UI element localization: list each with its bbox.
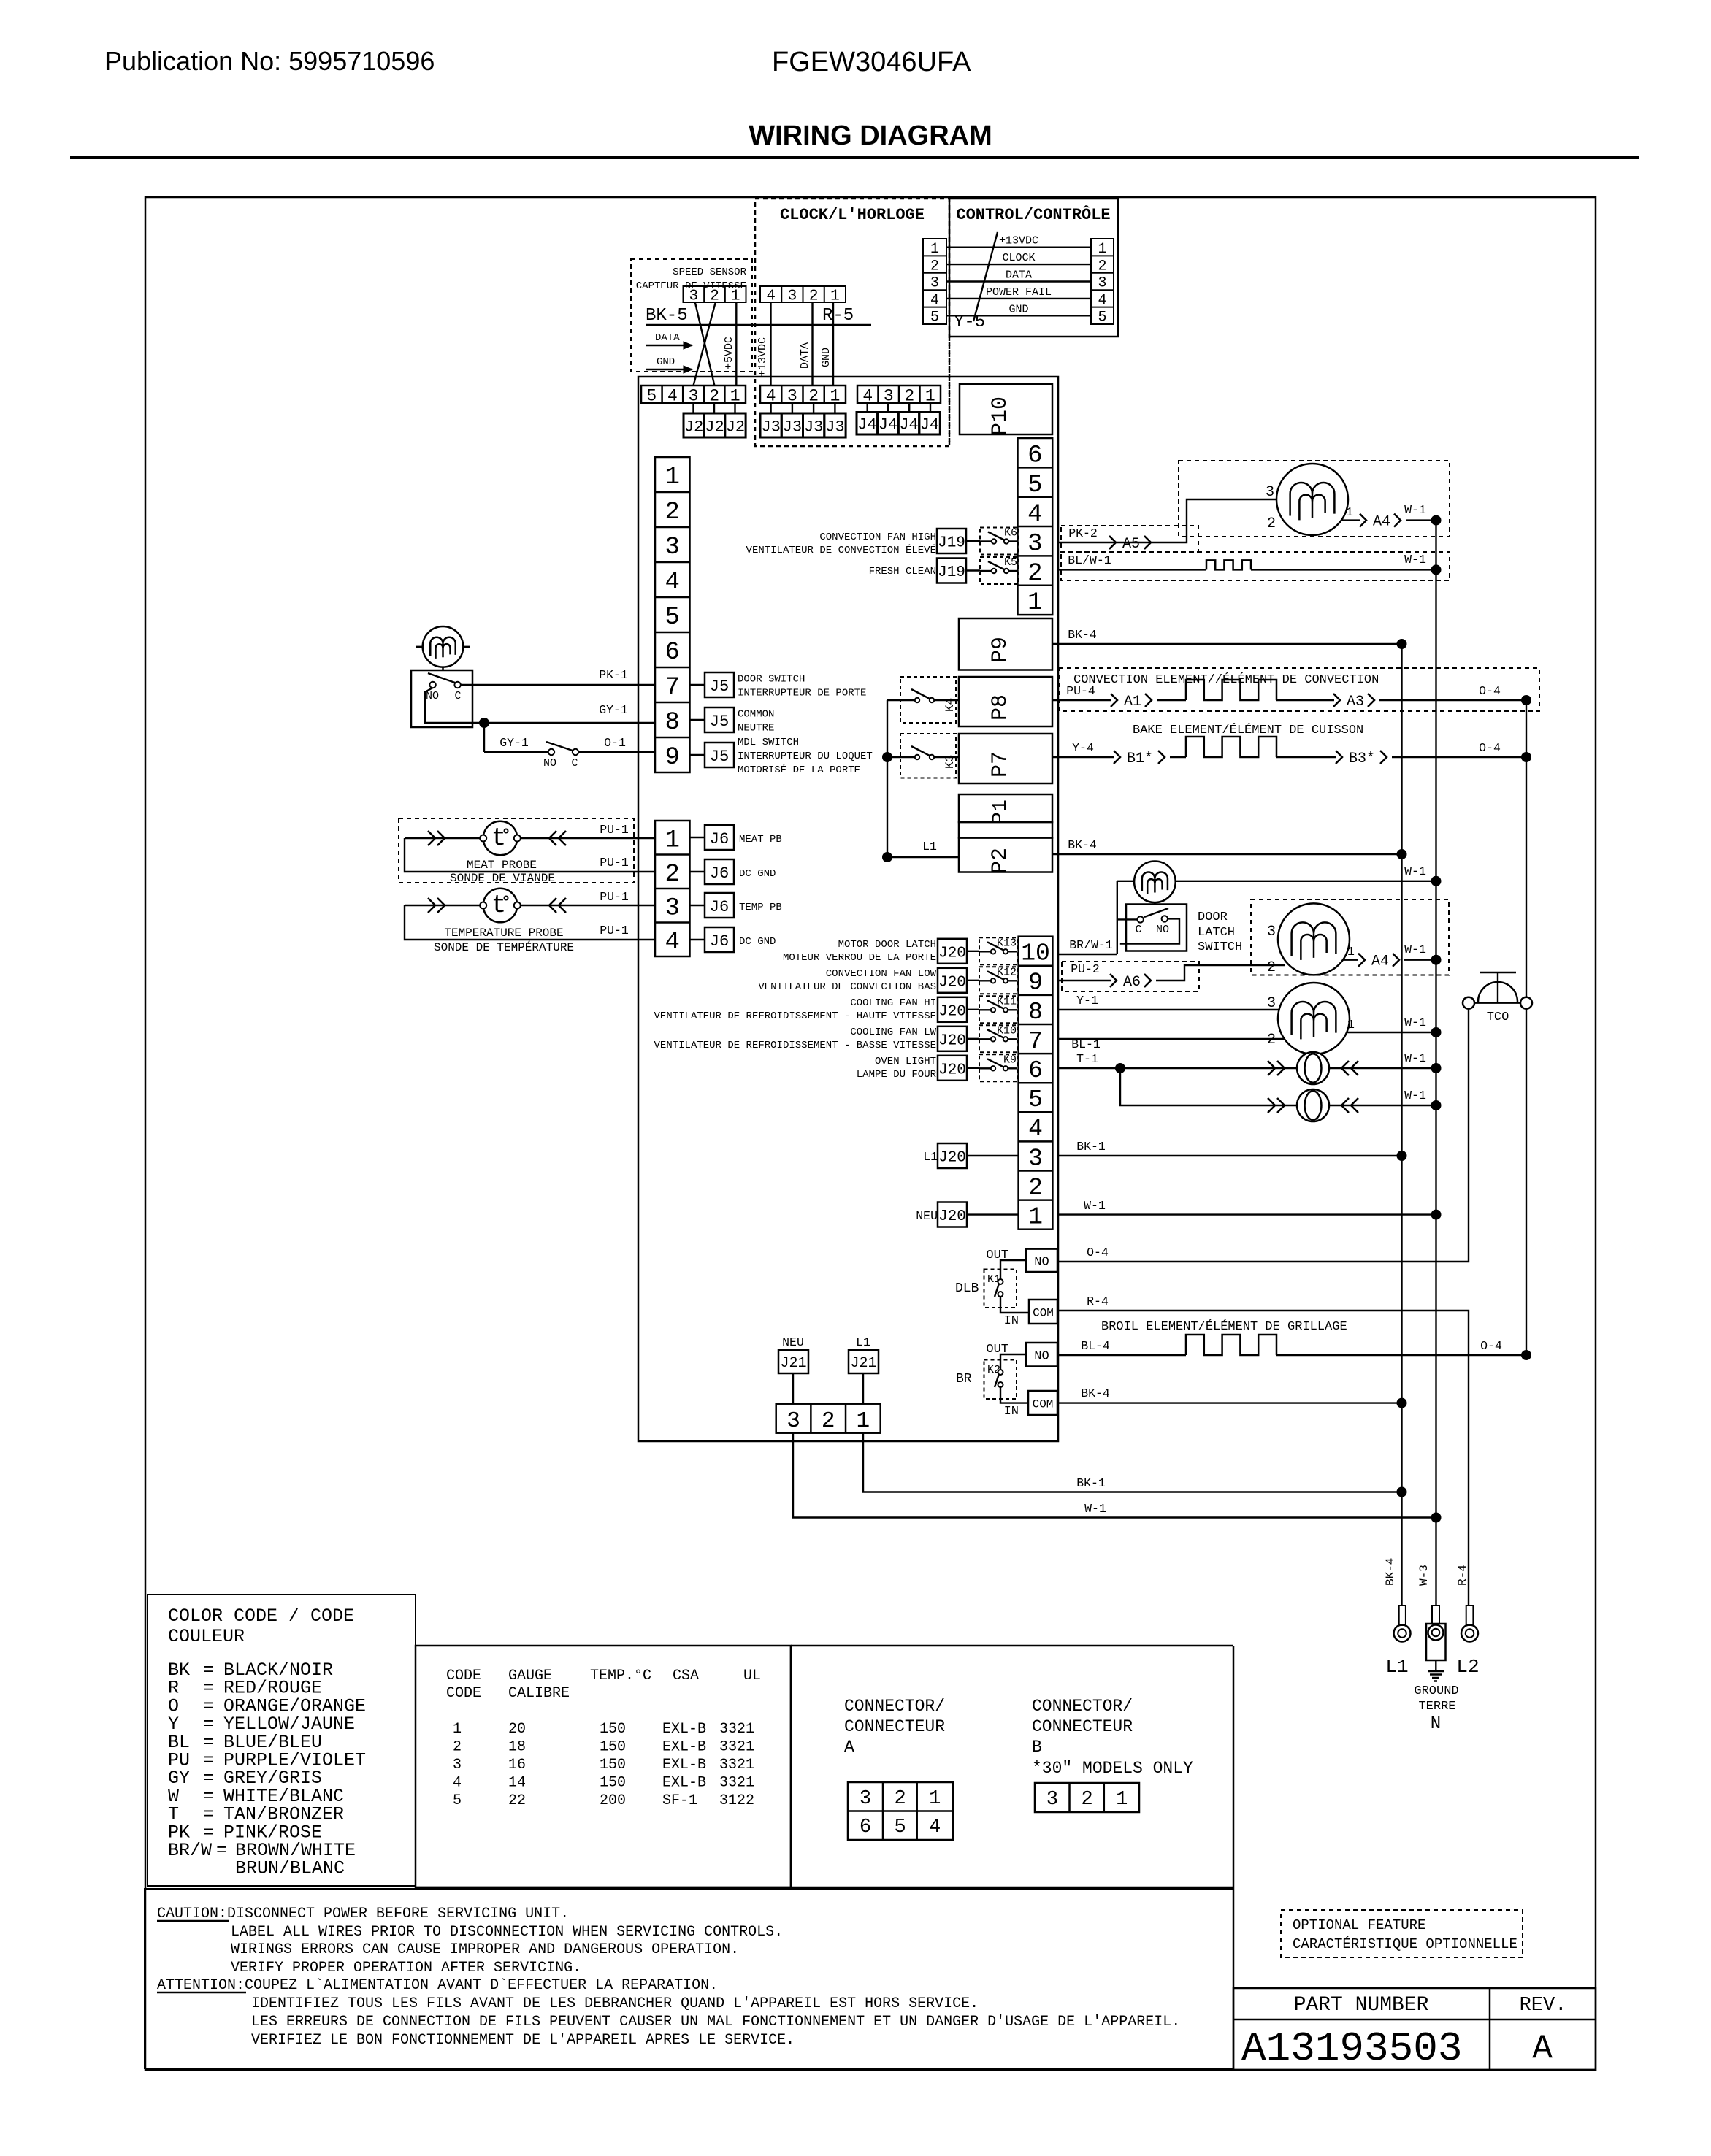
door latch switch internal wiring — [1117, 918, 1138, 920]
connector J6 at row y=1240 — [690, 905, 705, 906]
svg-text:9: 9 — [665, 744, 680, 772]
color code box — [148, 1595, 416, 1886]
svg-text:R-4: R-4 — [1087, 1294, 1109, 1308]
svg-text:W-1: W-1 — [1404, 1051, 1426, 1065]
svg-text:LABEL ALL WIRES PRIOR TO DISCO: LABEL ALL WIRES PRIOR TO DISCONNECTION W… — [231, 1924, 783, 1941]
svg-text:*30" MODELS ONLY: *30" MODELS ONLY — [1032, 1759, 1193, 1778]
svg-text:2: 2 — [1028, 1174, 1043, 1201]
door latch switch box — [1126, 905, 1187, 951]
clock wire DATA — [811, 302, 813, 385]
connector J6 at row y=1287 — [690, 939, 705, 940]
temperature probe symbol — [483, 889, 518, 923]
connector J4 plug boxes — [857, 413, 878, 435]
connector J5 at row y=938 — [690, 684, 705, 686]
svg-text:EXL-B: EXL-B — [662, 1757, 706, 1773]
control connector right pin column 1-5 — [1091, 239, 1114, 324]
svg-text:VENTILATEUR DE CONVECTION BAS: VENTILATEUR DE CONVECTION BAS — [758, 981, 936, 993]
title underline — [70, 156, 1639, 159]
svg-text:PU-2: PU-2 — [1071, 962, 1100, 976]
clock connector pin row 4 3 2 1 — [760, 286, 846, 302]
MDL switch contacts — [548, 749, 554, 755]
svg-text:1: 1 — [730, 386, 740, 405]
svg-text:K9: K9 — [1003, 1054, 1017, 1066]
svg-text:J21: J21 — [850, 1355, 876, 1372]
svg-text:+13VDC: +13VDC — [999, 235, 1038, 248]
svg-text:J20: J20 — [938, 945, 966, 962]
svg-text:A4: A4 — [1373, 514, 1390, 531]
junction dot W bus lamp1 — [1431, 1063, 1442, 1073]
svg-text:K10: K10 — [997, 1024, 1017, 1037]
svg-text:COOLING FAN HI: COOLING FAN HI — [850, 997, 936, 1009]
svg-text:20: 20 — [508, 1721, 526, 1738]
svg-text:VERIFY PROPER OPERATION AFTER: VERIFY PROPER OPERATION AFTER SERVICING. — [231, 1960, 581, 1976]
connector J5 at row y=986 — [690, 719, 705, 721]
svg-text:2: 2 — [1027, 560, 1042, 588]
oven light lamp 2 — [1267, 1105, 1297, 1106]
svg-text:CARACTÉRISTIQUE OPTIONNELLE: CARACTÉRISTIQUE OPTIONNELLE — [1293, 1936, 1517, 1952]
speed sensor pin row 3 2 1 — [684, 286, 746, 302]
svg-text:NO: NO — [426, 690, 439, 702]
control wire POWER FAIL — [946, 298, 1091, 299]
wire W-1 from bottom connector pin3 — [793, 1433, 1436, 1518]
svg-text:SONDE DE VIANDE: SONDE DE VIANDE — [450, 872, 555, 885]
svg-text:BK-1: BK-1 — [1076, 1476, 1106, 1490]
svg-text:CODE: CODE — [446, 1668, 481, 1684]
svg-text:J20: J20 — [938, 1032, 966, 1049]
junction dot W bus fan3 — [1431, 1027, 1442, 1037]
svg-text:1: 1 — [453, 1721, 462, 1738]
svg-text:PU-1: PU-1 — [600, 856, 629, 870]
svg-text:O-4: O-4 — [1479, 741, 1501, 755]
convection fan low motor M2 — [1278, 903, 1350, 975]
svg-text:7: 7 — [1028, 1028, 1043, 1055]
wire Y-1 cooling fan hi — [1057, 1009, 1279, 1010]
J3 stubs — [770, 403, 771, 413]
connector P10 — [960, 384, 1052, 434]
connector P9 — [959, 618, 1052, 670]
connector J19 (fresh clean) — [937, 559, 966, 583]
clock wire +13VDC — [770, 302, 771, 385]
svg-text:3: 3 — [786, 1408, 800, 1434]
svg-text:BK-1: BK-1 — [1076, 1140, 1106, 1154]
convection fan high motor dashed box — [1179, 461, 1450, 537]
control wire CLOCK — [946, 264, 1091, 265]
svg-text:CSA: CSA — [673, 1668, 699, 1684]
svg-text:2: 2 — [1081, 1789, 1092, 1811]
svg-text:1: 1 — [1346, 505, 1353, 519]
svg-text:3: 3 — [1098, 275, 1106, 292]
svg-text:3: 3 — [453, 1757, 462, 1773]
terminal L1 ring — [1399, 1606, 1406, 1625]
svg-text:200: 200 — [600, 1792, 626, 1809]
svg-text:+5VDC: +5VDC — [723, 337, 735, 369]
svg-text:UL: UL — [743, 1668, 761, 1684]
wire GY-1 (common to pin 8) — [484, 722, 655, 724]
terminal L2 ring — [1466, 1606, 1474, 1625]
svg-text:CONNECTEUR: CONNECTEUR — [1032, 1717, 1133, 1736]
svg-text:PU-4: PU-4 — [1066, 684, 1095, 698]
wire O-4 from DLB NO to TCO — [1057, 1010, 1469, 1262]
svg-text:3: 3 — [1046, 1789, 1058, 1811]
svg-text:J20: J20 — [938, 1208, 966, 1225]
svg-text:O-1: O-1 — [604, 736, 626, 750]
relay K12 — [979, 967, 1017, 994]
svg-text:TEMP.°C: TEMP.°C — [590, 1668, 651, 1684]
svg-text:4: 4 — [766, 386, 776, 405]
svg-text:GND: GND — [657, 356, 675, 368]
svg-text:5: 5 — [665, 604, 680, 632]
svg-text:BR/W-1: BR/W-1 — [1069, 938, 1113, 952]
svg-text:2: 2 — [809, 288, 819, 305]
wire W-1 door latch motor to W bus — [1176, 881, 1436, 882]
sensor crossover wires to J2 — [695, 302, 715, 385]
svg-text:OPTIONAL FEATURE: OPTIONAL FEATURE — [1293, 1917, 1425, 1933]
svg-text:IDENTIFIEZ TOUS LES FILS AVANT: IDENTIFIEZ TOUS LES FILS AVANT DE LES DE… — [251, 1995, 979, 2012]
svg-text:FGEW3046UFA: FGEW3046UFA — [772, 47, 971, 77]
svg-text:150: 150 — [600, 1721, 626, 1738]
junction dot O bus broil — [1521, 1350, 1531, 1360]
svg-text:2: 2 — [665, 499, 680, 526]
connector J6 at row y=1194 — [690, 871, 705, 872]
svg-text:3321: 3321 — [719, 1775, 754, 1792]
junction dot T-1 — [1115, 1063, 1125, 1073]
connector J6 at row y=1147 — [690, 837, 705, 838]
svg-text:1: 1 — [930, 241, 939, 258]
connector J19 (convection fan high) — [937, 529, 966, 553]
svg-text:9: 9 — [1028, 970, 1043, 997]
svg-text:2: 2 — [453, 1739, 462, 1756]
svg-text:SPEED SENSOR: SPEED SENSOR — [673, 266, 746, 278]
svg-text:3: 3 — [788, 288, 797, 305]
svg-text:5: 5 — [1098, 310, 1106, 326]
svg-text:5: 5 — [1028, 1086, 1043, 1113]
svg-text:7: 7 — [665, 674, 680, 702]
svg-text:NO: NO — [1034, 1349, 1049, 1363]
connector J5 at row y=1034 — [690, 754, 705, 756]
svg-text:SWITCH: SWITCH — [1198, 940, 1242, 954]
relay K10 — [979, 1025, 1017, 1052]
svg-text:3: 3 — [930, 275, 939, 292]
sensor +5V wire to J2 pin1 — [735, 302, 737, 385]
svg-text:150: 150 — [600, 1739, 626, 1756]
svg-text:CONNECTEUR: CONNECTEUR — [844, 1717, 945, 1736]
svg-text:EXL-B: EXL-B — [662, 1775, 706, 1792]
svg-text:R-5: R-5 — [822, 306, 854, 326]
junction dot O bus bake — [1521, 752, 1531, 762]
svg-text:L1: L1 — [856, 1335, 870, 1349]
svg-text:1: 1 — [665, 464, 680, 491]
left connector column pins 1-4 (J6) — [655, 821, 690, 956]
svg-text:CONVECTION FAN LOW: CONVECTION FAN LOW — [826, 968, 937, 980]
dashed box BL/W-1 fresh clean — [1061, 552, 1450, 580]
terminal ground — [1432, 1606, 1439, 1624]
wire R-4 from DLB COM — [1057, 1311, 1469, 1606]
tables region divider — [790, 1646, 792, 1887]
relay K2 COM box — [1028, 1391, 1057, 1415]
wire BL-1 cooling fan lw — [1057, 1038, 1284, 1040]
svg-text:P2: P2 — [988, 848, 1013, 874]
svg-text:3: 3 — [1267, 924, 1276, 940]
svg-text:1: 1 — [929, 1788, 941, 1810]
svg-text:NO: NO — [1034, 1255, 1049, 1269]
svg-text:W-1: W-1 — [1404, 553, 1426, 567]
connector P7 — [959, 734, 1052, 783]
connector J20 at K10 — [938, 1027, 967, 1051]
wire BK-4 from P2 — [1052, 853, 1402, 855]
svg-text:VERIFIEZ LE BON FONCTIONNEMENT: VERIFIEZ LE BON FONCTIONNEMENT DE L'APPA… — [251, 2032, 795, 2049]
svg-text:J6: J6 — [710, 864, 729, 883]
svg-text:14: 14 — [508, 1775, 526, 1792]
svg-text:J2: J2 — [684, 418, 703, 436]
wire PU-1 meat probe row 1 — [405, 837, 655, 839]
svg-text:BK-4: BK-4 — [1081, 1386, 1110, 1400]
svg-text:5: 5 — [930, 310, 939, 326]
svg-text:22: 22 — [508, 1792, 526, 1809]
optional feature dashed box — [1281, 1910, 1523, 1957]
wire O-1 (MDL switch to pin 9) — [578, 751, 655, 753]
svg-text:J2: J2 — [705, 418, 724, 436]
svg-text:2: 2 — [904, 386, 914, 405]
svg-text:J4: J4 — [879, 416, 897, 434]
svg-text:INTERRUPTEUR DU LOQUET: INTERRUPTEUR DU LOQUET — [738, 751, 873, 762]
relay K4 dashed box — [900, 677, 956, 723]
svg-text:K6: K6 — [1004, 527, 1017, 540]
junction dot O bus convection — [1521, 695, 1531, 705]
svg-text:BL/W-1: BL/W-1 — [1068, 553, 1111, 567]
svg-text:COOLING FAN LW: COOLING FAN LW — [850, 1027, 936, 1038]
svg-text:COLOR CODE / CODE: COLOR CODE / CODE — [168, 1606, 354, 1627]
svg-text:1: 1 — [1116, 1789, 1128, 1811]
svg-text:3: 3 — [689, 288, 699, 305]
wire A4 from fan M1 pin 1 — [1341, 519, 1360, 521]
svg-text:=: = — [216, 1840, 227, 1861]
svg-text:J4: J4 — [899, 416, 918, 434]
speed sensor dashed box — [631, 259, 752, 372]
svg-text:GND: GND — [820, 348, 832, 367]
svg-text:6: 6 — [1028, 1057, 1043, 1084]
svg-text:3: 3 — [884, 386, 894, 405]
svg-text:Y-5: Y-5 — [954, 312, 985, 332]
svg-text:5: 5 — [1027, 472, 1042, 499]
svg-text:2: 2 — [709, 386, 719, 405]
door motor — [423, 626, 464, 667]
svg-text:3: 3 — [1028, 1145, 1043, 1172]
svg-text:3: 3 — [665, 534, 680, 561]
svg-text:W-1: W-1 — [1404, 864, 1426, 878]
svg-text:VENTILATEUR DE CONVECTION ÉLEV: VENTILATEUR DE CONVECTION ÉLEVÉ — [746, 543, 936, 556]
svg-text:3122: 3122 — [719, 1792, 754, 1809]
connector J2 header row 5 4 3 2 1 — [641, 385, 746, 403]
svg-text:O-4: O-4 — [1480, 1339, 1502, 1353]
svg-text:3: 3 — [665, 894, 680, 922]
svg-text:O-4: O-4 — [1479, 684, 1501, 698]
svg-text:2: 2 — [930, 258, 939, 275]
svg-text:J6: J6 — [710, 932, 729, 951]
relay K1 dashed box — [984, 1270, 1017, 1308]
svg-text:J3: J3 — [783, 418, 802, 436]
wire A4 from fan M2 pin 1 — [1343, 959, 1358, 960]
svg-text:COM: COM — [1033, 1306, 1054, 1319]
svg-text:COM: COM — [1033, 1397, 1054, 1411]
meat probe dashed box — [399, 818, 634, 883]
svg-text:DC GND: DC GND — [739, 936, 776, 948]
svg-text:8: 8 — [1028, 999, 1043, 1026]
svg-text:1: 1 — [1347, 945, 1355, 959]
convection fan low motor dashed box — [1251, 899, 1449, 975]
svg-text:P9: P9 — [988, 637, 1013, 663]
svg-text:4: 4 — [929, 1817, 941, 1838]
svg-text:BK-4: BK-4 — [1068, 838, 1097, 852]
relay K1 COM box — [1029, 1300, 1057, 1324]
svg-text:GND: GND — [1008, 303, 1028, 315]
svg-text:4: 4 — [1098, 292, 1106, 309]
svg-text:1: 1 — [1028, 1204, 1043, 1231]
connector P1 — [959, 794, 1052, 822]
svg-text:MOTEUR VERROU DE LA PORTE: MOTEUR VERROU DE LA PORTE — [783, 952, 936, 964]
svg-text:MEAT PB: MEAT PB — [739, 834, 782, 845]
svg-text:6: 6 — [860, 1817, 871, 1838]
TCO thermal cutoff — [1463, 997, 1474, 1009]
svg-text:2: 2 — [808, 386, 819, 405]
wire to oven light lamp 2 — [1120, 1068, 1267, 1105]
svg-text:TEMPERATURE PROBE: TEMPERATURE PROBE — [444, 927, 563, 940]
control connector left pin column 1-5 — [923, 239, 946, 324]
svg-text:NEU: NEU — [916, 1209, 938, 1223]
svg-text:10: 10 — [1021, 940, 1050, 967]
svg-text:IN: IN — [1004, 1314, 1019, 1328]
svg-text:2: 2 — [1098, 258, 1106, 275]
svg-text:2: 2 — [665, 861, 680, 889]
wire L1 to P2 — [887, 856, 959, 858]
svg-text:GY-1: GY-1 — [499, 736, 529, 750]
svg-text:BK-4: BK-4 — [1068, 628, 1097, 642]
junction dot BK bus bottom — [1397, 1487, 1407, 1497]
svg-text:DATA: DATA — [799, 342, 811, 369]
control wire +13VDC — [946, 247, 1091, 248]
svg-text:A13193503: A13193503 — [1241, 2025, 1462, 2072]
svg-text:PK-2: PK-2 — [1068, 526, 1098, 540]
relay K9 — [979, 1054, 1017, 1081]
svg-text:LES ERREURS DE CONNECTION DE F: LES ERREURS DE CONNECTION DE FILS PEUVEN… — [251, 2014, 1180, 2030]
svg-text:2: 2 — [1267, 515, 1276, 532]
svg-text:R-4: R-4 — [1456, 1565, 1469, 1586]
svg-text:L1: L1 — [1385, 1656, 1408, 1678]
svg-text:3: 3 — [1027, 530, 1042, 558]
svg-text:3321: 3321 — [719, 1757, 754, 1773]
svg-text:J20: J20 — [938, 1003, 966, 1020]
svg-text:DOOR SWITCH: DOOR SWITCH — [738, 674, 805, 686]
svg-text:5: 5 — [894, 1817, 906, 1838]
svg-text:BL-4: BL-4 — [1081, 1339, 1110, 1353]
convection fan motor M1 — [1276, 464, 1348, 535]
svg-text:DLB: DLB — [955, 1281, 979, 1296]
wire W-1 from pin 1 — [1057, 1213, 1436, 1215]
svg-text:P7: P7 — [988, 751, 1013, 778]
svg-text:PART NUMBER: PART NUMBER — [1294, 1994, 1429, 2017]
svg-text:2: 2 — [822, 1408, 835, 1434]
relay K5 — [980, 557, 1018, 584]
connector J20 at K9 — [938, 1056, 967, 1081]
oven light lamp 1 — [1267, 1067, 1297, 1069]
svg-text:W-1: W-1 — [1404, 1089, 1426, 1102]
svg-text:L1: L1 — [923, 1150, 938, 1164]
part number block — [1233, 1646, 1235, 2070]
svg-text:BAKE ELEMENT/ÉLÉMENT DE CUISSO: BAKE ELEMENT/ÉLÉMENT DE CUISSON — [1133, 723, 1363, 737]
svg-text:3321: 3321 — [719, 1721, 754, 1738]
svg-text:DATA: DATA — [1006, 269, 1032, 282]
svg-text:K11: K11 — [997, 995, 1017, 1008]
svg-text:3321: 3321 — [719, 1739, 754, 1756]
svg-text:BR: BR — [956, 1372, 972, 1386]
wire gauge table — [416, 1646, 791, 1887]
svg-text:5: 5 — [453, 1792, 462, 1809]
relay K6 — [980, 528, 1018, 555]
svg-text:t: t — [491, 825, 506, 853]
svg-text:OVEN LIGHT: OVEN LIGHT — [875, 1056, 936, 1067]
wire BK-4 from P9 — [1052, 643, 1402, 645]
svg-text:J5: J5 — [710, 678, 729, 696]
svg-text:4: 4 — [665, 569, 680, 596]
svg-text:CONNECTOR/: CONNECTOR/ — [844, 1697, 945, 1716]
svg-text:K13: K13 — [997, 937, 1017, 949]
svg-text:A3: A3 — [1347, 694, 1364, 710]
svg-text:EXL-B: EXL-B — [662, 1739, 706, 1756]
svg-text:B1*: B1* — [1127, 751, 1153, 767]
svg-text:LATCH: LATCH — [1198, 926, 1235, 940]
svg-text:CONVECTION FAN HIGH: CONVECTION FAN HIGH — [819, 532, 936, 543]
wire BK-1 from pin 3 — [1057, 1155, 1402, 1156]
svg-text:IN: IN — [1004, 1405, 1019, 1419]
svg-text:BK-4: BK-4 — [1384, 1558, 1397, 1586]
svg-text:NEUTRE: NEUTRE — [738, 723, 774, 734]
svg-text:Y-1: Y-1 — [1076, 994, 1098, 1008]
connector B table — [1035, 1783, 1139, 1812]
svg-text:1: 1 — [857, 1408, 870, 1434]
bottom connector 3 2 1 — [776, 1404, 881, 1433]
svg-text:4: 4 — [930, 292, 939, 309]
svg-text:J3: J3 — [761, 418, 780, 436]
cooling fan motor M3 — [1278, 983, 1350, 1054]
dashed box PU-2 — [1062, 962, 1199, 991]
svg-text:NO: NO — [1156, 924, 1169, 936]
J2 stubs — [692, 403, 694, 413]
junction dot W bus fresh clean — [1431, 564, 1442, 575]
svg-text:J21: J21 — [780, 1355, 806, 1372]
svg-text:MDL SWITCH: MDL SWITCH — [738, 737, 799, 748]
wire PU-1 temp probe return row 4 — [405, 905, 655, 940]
svg-text:2: 2 — [1267, 1032, 1276, 1048]
connector J4 header row 4 3 2 1 — [857, 385, 941, 403]
svg-text:O-4: O-4 — [1087, 1246, 1109, 1259]
svg-text:COMMON: COMMON — [738, 709, 774, 721]
svg-text:A6: A6 — [1123, 974, 1141, 991]
svg-text:W-1: W-1 — [1404, 943, 1426, 956]
main connector column pins 10-1 — [1019, 937, 1053, 1229]
relay K2 (BR) NO box — [1026, 1343, 1057, 1367]
relay K2 dashed box — [984, 1360, 1017, 1400]
svg-text:VENTILATEUR DE REFROIDISSEMENT: VENTILATEUR DE REFROIDISSEMENT - BASSE V… — [654, 1040, 936, 1051]
svg-text:W-3: W-3 — [1417, 1565, 1431, 1586]
svg-text:8: 8 — [665, 709, 680, 737]
control harness slash — [973, 232, 998, 321]
control wire GND — [946, 315, 1091, 316]
svg-text:BK-5: BK-5 — [646, 306, 688, 326]
svg-text:CLOCK/L'HORLOGE: CLOCK/L'HORLOGE — [780, 206, 925, 224]
relay K13 — [979, 937, 1017, 964]
svg-text:PU-1: PU-1 — [600, 890, 629, 904]
svg-text:INTERRUPTEUR DE PORTE: INTERRUPTEUR DE PORTE — [738, 688, 866, 699]
svg-text:BR/W: BR/W — [168, 1840, 212, 1861]
